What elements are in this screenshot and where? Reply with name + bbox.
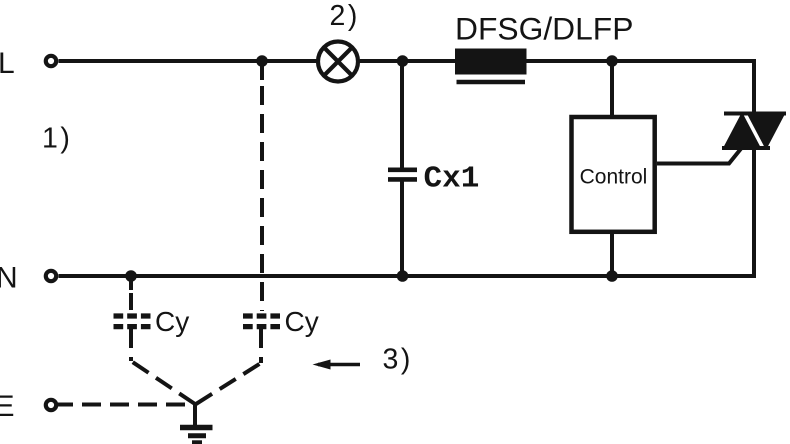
capacitor Cx1 top plate <box>388 168 417 173</box>
svg-text:2): 2) <box>330 0 360 32</box>
ground bar 2 <box>188 433 206 438</box>
svg-text:N: N <box>0 261 18 294</box>
triac Q1 top bar <box>724 112 786 116</box>
wire dashed E to earth node <box>82 403 190 407</box>
junction dot L/control <box>606 55 618 67</box>
capacitor Cy1 bottom plate <box>114 324 151 329</box>
capacitor Cy2 bottom plate <box>243 324 280 329</box>
wire filter to right corner <box>526 59 756 63</box>
wire Cx1 lower lead <box>400 181 404 276</box>
capacitor Cy2 top plate <box>243 313 280 318</box>
wire dashed branch from L to Cy2 <box>260 86 264 311</box>
terminal N <box>46 271 56 281</box>
junction dot N/control <box>606 270 618 282</box>
wire L terminal to lamp <box>59 59 317 63</box>
wire E terminal stub <box>57 403 73 407</box>
svg-text:1): 1) <box>42 123 72 155</box>
svg-text:Control: Control <box>580 165 648 188</box>
arrow 3) head <box>313 360 331 370</box>
wire N line <box>59 274 757 278</box>
control box U1 <box>572 117 655 232</box>
inductor core bar <box>457 80 526 85</box>
wire dashed diagonal Cy2 to earth node <box>196 363 261 404</box>
triac Q1 lower triangle <box>722 112 762 150</box>
wire right vertical above triac <box>752 59 756 115</box>
wire lamp to filter <box>360 59 456 63</box>
ground bar 1 <box>180 425 213 431</box>
svg-text:L: L <box>0 47 15 80</box>
junction dot L/Cx1 <box>397 55 409 67</box>
triac Q1 bottom bar <box>722 146 770 150</box>
wire dashed below Cy2 <box>259 329 263 363</box>
junction dot N/Cx1 <box>397 270 409 282</box>
svg-text:Cy: Cy <box>155 306 189 337</box>
arrow 3) shaft <box>318 363 360 367</box>
ground lead <box>193 402 197 427</box>
wire dashed branch from N to Cy1 <box>129 293 133 311</box>
terminal E <box>46 400 56 410</box>
svg-text:DFSG/DLFP: DFSG/DLFP <box>455 10 633 46</box>
junction dot L/branch <box>256 55 268 67</box>
wire solid stub below N junction <box>129 276 133 290</box>
capacitor Cx1 bottom plate <box>388 177 417 182</box>
inductor DFSG/DLFP body <box>455 49 527 75</box>
terminal L <box>46 56 56 66</box>
svg-text:Cx1: Cx1 <box>424 161 480 196</box>
lamp 2) body <box>318 42 358 82</box>
svg-text:Cy: Cy <box>285 306 319 337</box>
triac gate wire <box>657 148 742 164</box>
wire control box to N line <box>610 233 614 276</box>
ground bar 3 <box>192 440 202 444</box>
wire Cx1 upper lead <box>400 61 404 168</box>
junction dot N/Cy1 <box>125 270 137 282</box>
svg-text:3): 3) <box>383 343 413 375</box>
capacitor Cy1 top plate <box>114 313 151 318</box>
wire right vertical below triac <box>752 146 756 278</box>
wire L line to control box <box>610 61 614 115</box>
svg-text:E: E <box>0 390 15 423</box>
triac Q1 upper triangle <box>746 112 786 150</box>
wire solid stub below L junction <box>260 61 264 80</box>
wire dashed below Cy1 <box>129 329 133 361</box>
wire dashed diagonal Cy1 to earth node <box>131 361 195 404</box>
